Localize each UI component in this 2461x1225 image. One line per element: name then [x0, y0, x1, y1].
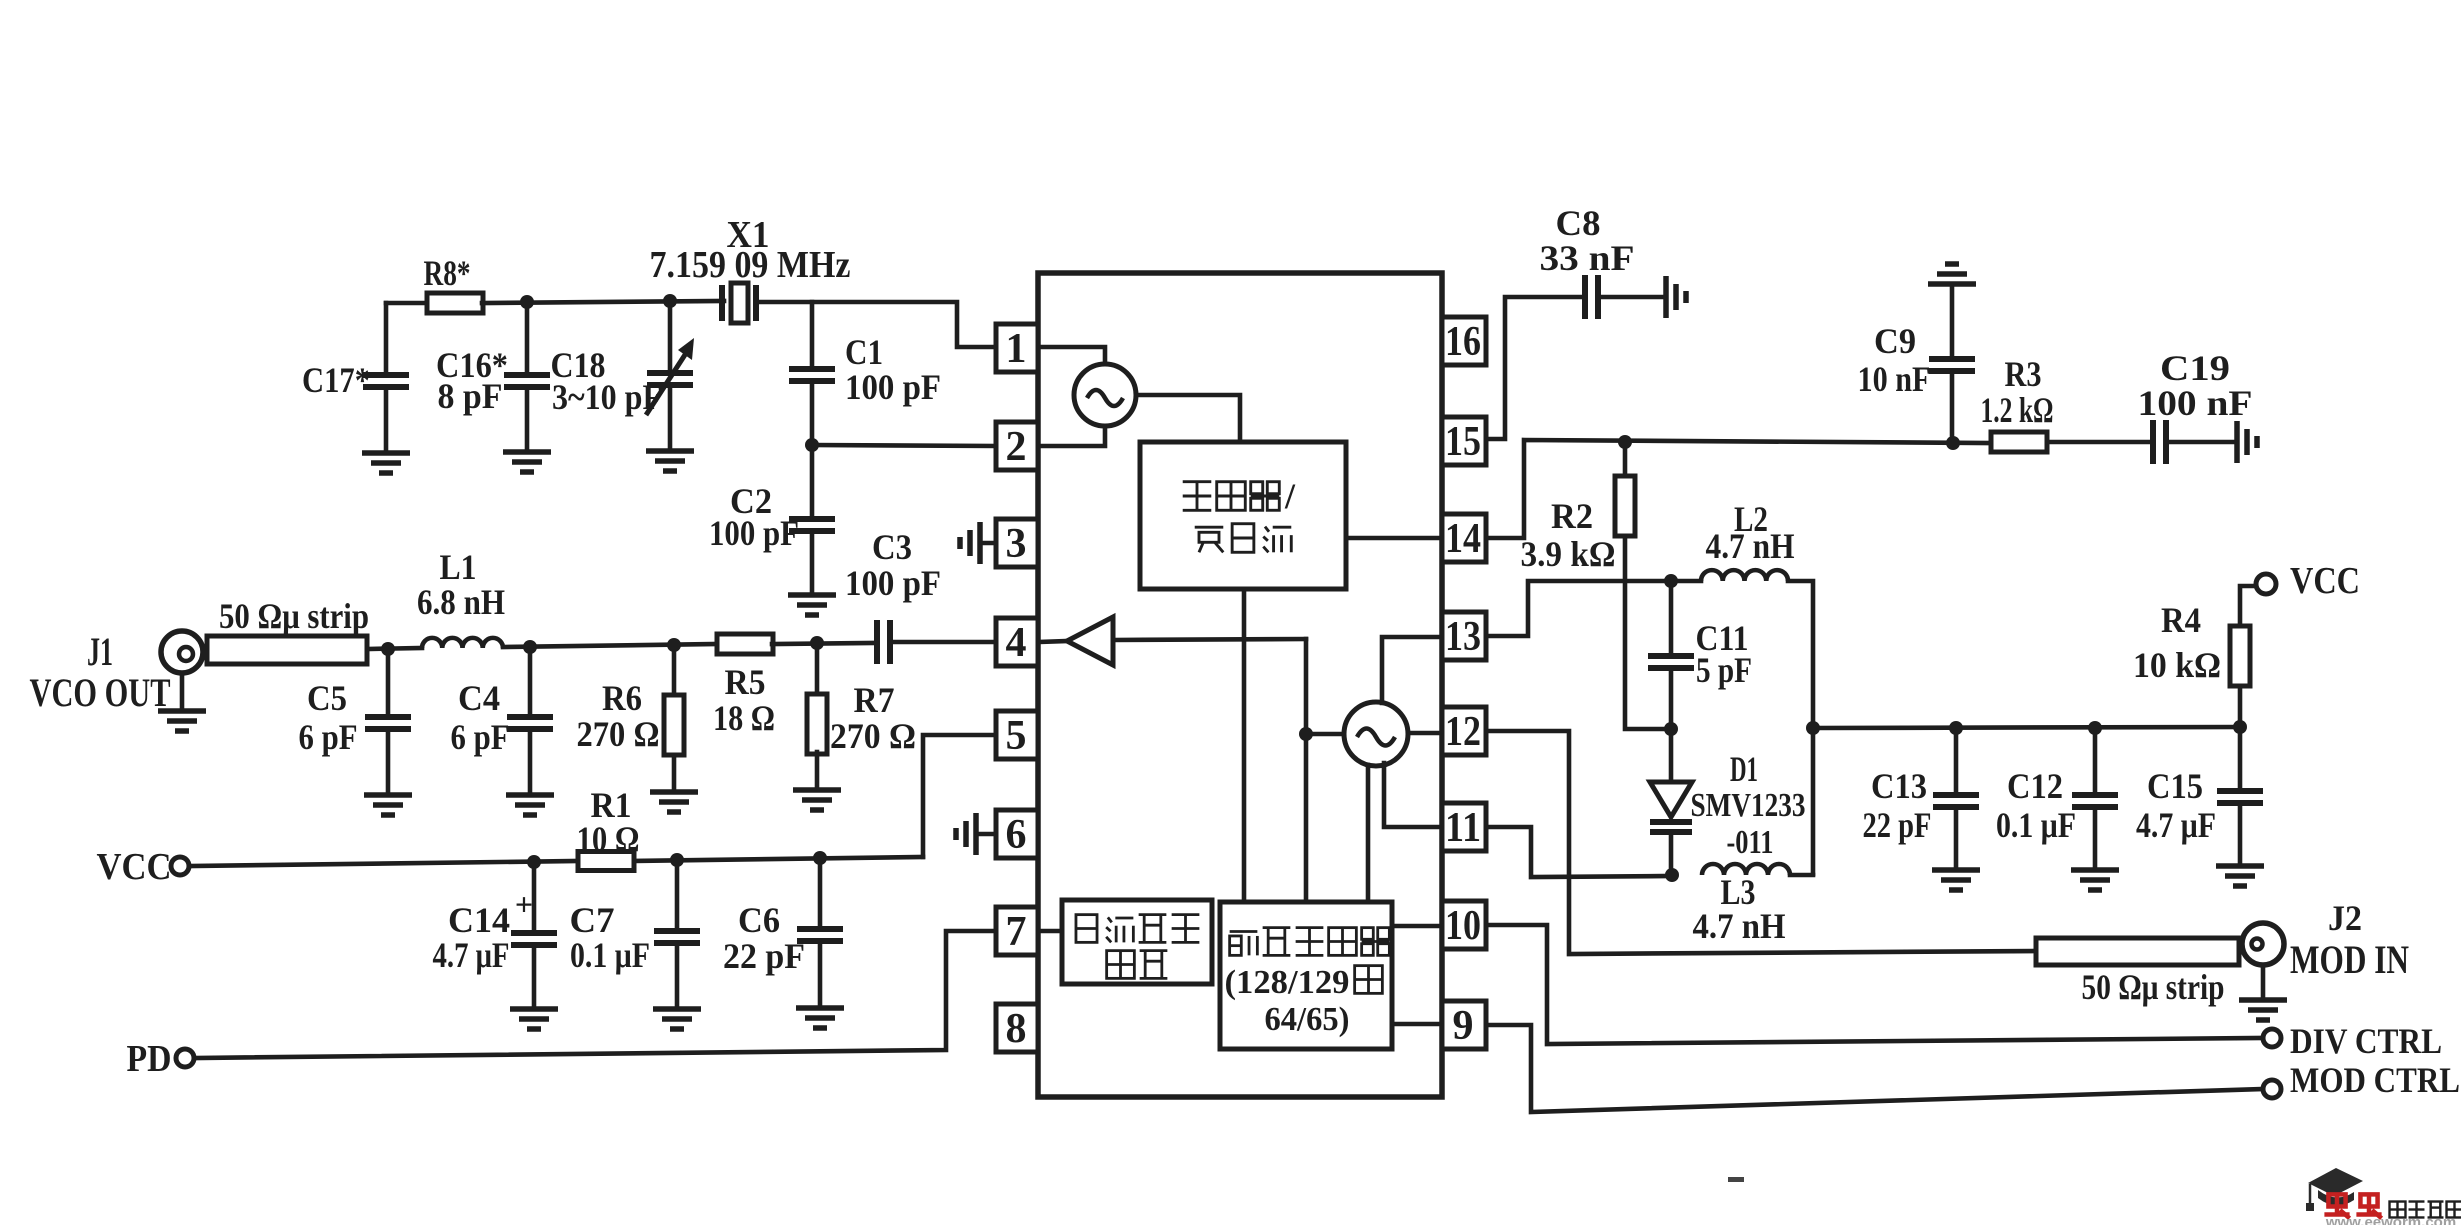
connector J1	[161, 631, 203, 673]
node C5	[381, 642, 395, 656]
watermark graduation cap logo	[2306, 1168, 2363, 1211]
capacitor C4	[528, 647, 533, 713]
ground C16	[503, 452, 551, 472]
ground C18	[646, 451, 694, 471]
pin 7	[996, 907, 1038, 955]
svg-text:13: 13	[1445, 614, 1481, 660]
wire to pin 5	[923, 735, 996, 857]
wire osc to phase detector	[1136, 395, 1240, 442]
svg-text:DIV CTRL: DIV CTRL	[2290, 1021, 2442, 1061]
wire pin 11 to tank bottom	[1486, 827, 1672, 877]
wire VCC rail right	[634, 857, 923, 861]
wire C3 to pin 4	[893, 640, 996, 645]
ground C4	[506, 795, 554, 815]
wire pin 13 to tank	[1486, 581, 1671, 636]
svg-text:D1: D1	[1730, 749, 1758, 789]
node R2 top	[1618, 435, 1632, 449]
svg-text:10 nF: 10 nF	[1858, 359, 1931, 399]
svg-text:C15: C15	[2147, 766, 2203, 806]
wire osc2 to prescaler	[1366, 765, 1371, 902]
inductor L3	[1702, 864, 1790, 875]
node C14	[527, 855, 541, 869]
microstrip 50ohm J2	[2036, 938, 2239, 965]
svg-text:4: 4	[1006, 620, 1027, 666]
resistor R2	[1623, 442, 1628, 474]
capacitor C3	[874, 620, 893, 664]
wire pin 13 to osc2 top	[1382, 637, 1442, 703]
svg-text:VCC: VCC	[97, 846, 172, 888]
ground C5	[364, 795, 412, 815]
ground C13	[1932, 870, 1980, 890]
ground R7	[793, 790, 841, 810]
svg-text:8: 8	[1006, 1006, 1027, 1052]
crystal X1	[731, 283, 748, 323]
svg-text:4.7 nH: 4.7 nH	[1693, 906, 1786, 946]
resistor R7	[815, 643, 820, 697]
wire PD to pin 7	[194, 931, 996, 1058]
capacitor C2	[810, 445, 815, 515]
svg-text:R2: R2	[1551, 496, 1593, 536]
block DC bias (直流偏置电路)	[1062, 900, 1212, 984]
pin 11	[1442, 803, 1486, 851]
svg-text:J2: J2	[2328, 898, 2362, 938]
ground C8	[1666, 276, 1686, 318]
ground C17	[362, 453, 410, 473]
node D1/L3/pin11	[1665, 868, 1679, 882]
svg-text:0.1 μF: 0.1 μF	[570, 935, 650, 975]
wire to L2	[1671, 579, 1701, 584]
svg-text:MOD CTRL: MOD CTRL	[2290, 1060, 2460, 1100]
svg-text:50 Ωμ strip: 50 Ωμ strip	[2082, 967, 2225, 1007]
wire pin 11 to osc2 bottom	[1384, 763, 1442, 827]
svg-text:18 Ω: 18 Ω	[713, 698, 775, 738]
node C6	[813, 851, 827, 865]
wire R5 to C3	[772, 643, 873, 644]
svg-text:9: 9	[1453, 1003, 1474, 1049]
capacitor C18 (variable)	[668, 301, 673, 369]
wire prescaler to pin 9	[1392, 1022, 1442, 1027]
svg-text:L1: L1	[440, 547, 477, 587]
wire block to pin 14	[1346, 536, 1442, 541]
pin 1	[996, 324, 1038, 372]
capacitor C1	[810, 302, 815, 365]
svg-text:10 Ω: 10 Ω	[577, 819, 640, 859]
capacitor C8	[1582, 275, 1601, 319]
terminal VCC right	[2256, 574, 2276, 594]
wire pin1 to osc	[1038, 347, 1105, 364]
svg-text:64/65): 64/65)	[1265, 1001, 1350, 1038]
svg-text:R7: R7	[854, 680, 895, 720]
svg-text:14: 14	[1445, 516, 1481, 562]
wire osc2 to pin 12	[1408, 731, 1442, 736]
wire VCC rail left	[189, 861, 578, 866]
resistor R3	[1991, 432, 2047, 452]
svg-text:6 pF: 6 pF	[299, 717, 358, 757]
capacitor C14 (polarized)	[532, 862, 537, 929]
svg-text:VCO OUT: VCO OUT	[30, 670, 171, 715]
text 前置分频器	[1230, 928, 1390, 956]
microstrip 50ohm J1	[207, 636, 367, 664]
terminal PD	[176, 1049, 194, 1067]
ground C12	[2071, 870, 2119, 890]
ground C7	[653, 1009, 701, 1029]
ground C9 (top)	[1928, 264, 1976, 284]
svg-text:4.7 μF: 4.7 μF	[433, 935, 510, 975]
capacitor C19 plates	[2150, 420, 2169, 464]
text 鉴相器/	[1183, 482, 1280, 511]
capacitor C11	[1669, 581, 1674, 652]
node C7	[670, 853, 684, 867]
node C9	[1946, 436, 1960, 450]
svg-text:VCC: VCC	[2290, 560, 2360, 602]
svg-text:C12: C12	[2007, 766, 2063, 806]
svg-text:100 pF: 100 pF	[845, 367, 941, 407]
svg-text:(128/129: (128/129	[1225, 964, 1350, 1001]
ground pin 3	[960, 522, 980, 564]
ground J2	[2239, 1000, 2287, 1020]
svg-text:SMV1233: SMV1233	[1691, 787, 1806, 824]
svg-text:6 pF: 6 pF	[451, 717, 510, 757]
ground J1	[158, 711, 206, 731]
watermark 电子下载站	[2390, 1202, 2461, 1218]
wire to pin 2	[812, 445, 996, 446]
wire X1 to pin 1	[756, 302, 996, 347]
wire amp to prescaler	[1304, 639, 1309, 902]
svg-text:10 kΩ: 10 kΩ	[2133, 645, 2221, 685]
wire pin 9 to MOD CTRL	[1486, 1025, 2263, 1112]
ground C14	[510, 1009, 558, 1029]
wire osc to pin2	[1038, 426, 1105, 446]
resistor R5	[717, 634, 773, 654]
svg-text:100 pF: 100 pF	[845, 563, 941, 603]
connector J2	[2242, 923, 2284, 965]
svg-text:22 pF: 22 pF	[723, 936, 805, 976]
node C4	[523, 640, 537, 654]
terminal DIV CTRL	[2263, 1029, 2281, 1047]
pin 9	[1442, 1001, 1486, 1049]
wire pin 12 to J2	[1486, 731, 2036, 954]
svg-text:J1: J1	[87, 629, 113, 674]
wire L3 right	[1790, 873, 1813, 878]
svg-text:7: 7	[1006, 909, 1027, 955]
ground C19	[2237, 421, 2257, 463]
svg-text:33 nF: 33 nF	[1540, 238, 1635, 278]
pin 3	[996, 519, 1038, 567]
ground C15	[2216, 866, 2264, 886]
node C16 junction	[520, 295, 534, 309]
ground pin 6	[956, 813, 976, 855]
pin 15	[1442, 417, 1486, 465]
capacitor C5	[386, 649, 391, 713]
svg-text:C17*: C17*	[302, 360, 370, 400]
svg-text:270 Ω: 270 Ω	[830, 716, 916, 756]
svg-text:16: 16	[1445, 319, 1481, 365]
svg-text:2: 2	[1006, 424, 1027, 470]
pin 4	[996, 618, 1038, 666]
wire varactor rail	[1813, 727, 2240, 728]
wire pin 14/15 rail to R3	[1486, 440, 1991, 538]
svg-text:3.9 kΩ: 3.9 kΩ	[1521, 534, 1616, 574]
svg-text:+: +	[515, 886, 533, 922]
svg-text:MOD IN: MOD IN	[2290, 937, 2409, 982]
svg-text:R3: R3	[2005, 354, 2042, 394]
wire amp output	[1113, 639, 1306, 640]
svg-text:10: 10	[1445, 903, 1481, 949]
svg-text:C9: C9	[1874, 321, 1916, 361]
node tank to rail	[1806, 721, 1820, 735]
svg-text:C1: C1	[845, 332, 883, 372]
svg-text:50 Ωμ strip: 50 Ωμ strip	[219, 596, 369, 636]
watermark 虫虫 (red)	[2324, 1193, 2349, 1218]
oscillator U1a (reference osc)	[1074, 364, 1136, 426]
svg-text:C7: C7	[570, 900, 615, 940]
svg-text:100 nF: 100 nF	[2138, 383, 2253, 423]
svg-text:6: 6	[1006, 812, 1027, 858]
wire J1 to strip	[203, 648, 207, 653]
capacitor C13	[1954, 728, 1959, 791]
text 直流偏置	[1076, 915, 1199, 943]
capacitor C15	[2238, 727, 2243, 787]
wire pin 10 to DIV CTRL	[1486, 925, 2263, 1044]
wire block to prescaler	[1242, 589, 1247, 902]
capacitor C7	[675, 860, 680, 927]
svg-text:4.7 nH: 4.7 nH	[1706, 526, 1795, 566]
pin 12	[1442, 707, 1486, 755]
svg-text:R4: R4	[2161, 600, 2201, 640]
ground C6	[796, 1008, 844, 1028]
wire R8 to X1	[482, 301, 724, 303]
pin 5	[996, 711, 1038, 759]
capacitor C19	[2047, 440, 2148, 445]
svg-text:15: 15	[1445, 419, 1481, 465]
svg-text:12: 12	[1445, 709, 1481, 755]
svg-text:6.8 nH: 6.8 nH	[417, 582, 505, 622]
svg-text:1: 1	[1006, 326, 1027, 372]
text 充电泵	[1195, 524, 1292, 553]
inductor L2	[1701, 570, 1788, 581]
svg-text:C8: C8	[1556, 203, 1601, 243]
svg-text:-011: -011	[1727, 824, 1774, 861]
svg-text:R5: R5	[725, 662, 766, 702]
svg-text:1.2 kΩ: 1.2 kΩ	[1981, 390, 2054, 430]
svg-text:R6: R6	[602, 678, 642, 718]
capacitor C6	[818, 858, 823, 925]
svg-text:C13: C13	[1871, 766, 1927, 806]
svg-text:11: 11	[1445, 805, 1481, 851]
svg-text:C14: C14	[448, 900, 510, 940]
node osc2 left	[1299, 727, 1313, 741]
svg-text:C19: C19	[2160, 348, 2230, 388]
stray mark	[1728, 1177, 1744, 1182]
varactor diode D1 SMV1233-011	[1669, 729, 1674, 781]
amplifier buffer at pin 4	[1038, 641, 1067, 642]
ground C2	[788, 595, 836, 615]
capacitor C16	[525, 302, 530, 371]
node C11/D1/R2	[1664, 722, 1678, 736]
resistor R8	[427, 293, 483, 313]
svg-text:5: 5	[1006, 713, 1027, 759]
svg-text:8 pF: 8 pF	[438, 376, 503, 416]
pin 16	[1442, 317, 1486, 365]
resistor R6	[672, 645, 677, 697]
terminal VCC left	[171, 857, 189, 875]
pin 6	[996, 810, 1038, 858]
capacitor C8 branch	[1486, 297, 1580, 439]
pin 13	[1442, 612, 1486, 660]
svg-text:3~10 pF: 3~10 pF	[552, 377, 662, 417]
svg-text:www.eeworm.com: www.eeworm.com	[2325, 1214, 2456, 1225]
wire L1 to R5	[503, 644, 718, 647]
capacitor C17	[384, 303, 389, 371]
svg-text:0.1 μF: 0.1 μF	[1996, 805, 2076, 845]
svg-text:7.159 09 MHz: 7.159 09 MHz	[650, 244, 851, 286]
pin 2	[996, 422, 1038, 470]
oscillator U1b (VCO)	[1344, 702, 1408, 766]
wire osc2 left stub	[1306, 732, 1344, 737]
block prescaler (前置分频器)	[1220, 902, 1392, 1049]
wire pin 7 to DC bias	[1038, 929, 1062, 934]
pin 8	[996, 1004, 1038, 1052]
wire pin 3 ground	[980, 541, 996, 546]
svg-text:3: 3	[1006, 521, 1027, 567]
terminal MOD CTRL	[2263, 1080, 2281, 1098]
node C12	[2088, 721, 2102, 735]
block phase-detector/charge-pump (鉴相器/充电泵)	[1140, 442, 1346, 589]
pin 10	[1442, 901, 1486, 949]
svg-text:4.7 μF: 4.7 μF	[2136, 805, 2216, 845]
node C13	[1949, 721, 1963, 735]
svg-text:C5: C5	[307, 678, 347, 718]
svg-text:100 pF: 100 pF	[709, 513, 799, 553]
node R7	[810, 636, 824, 650]
wire pin 6 ground	[976, 832, 996, 837]
capacitor C12	[2093, 728, 2098, 791]
inductor L1	[422, 638, 503, 648]
wire J2 ground	[2261, 965, 2266, 999]
wire strip to L1	[367, 648, 422, 649]
node L2/C11	[1664, 574, 1678, 588]
node C18 junction	[663, 294, 677, 308]
svg-text:C6: C6	[738, 900, 780, 940]
svg-text:22 pF: 22 pF	[1863, 805, 1932, 845]
text 电路	[1107, 951, 1168, 979]
svg-text:/: /	[1284, 476, 1296, 516]
wire R8 left	[386, 301, 428, 306]
wire prescaler to pin 10	[1392, 924, 1442, 929]
pin 14	[1442, 514, 1486, 562]
svg-text:5 pF: 5 pF	[1696, 650, 1752, 690]
IC U1 body	[1038, 273, 1442, 1097]
wire J1 ground	[180, 673, 185, 710]
svg-text:C3: C3	[872, 527, 912, 567]
svg-text:270 Ω: 270 Ω	[577, 714, 660, 754]
wire L2 right down	[1788, 581, 1813, 874]
svg-text:PD: PD	[127, 1038, 172, 1080]
svg-text:R8*: R8*	[424, 253, 471, 293]
resistor R1	[578, 852, 634, 871]
ground R6	[650, 792, 698, 812]
svg-text:C4: C4	[458, 678, 500, 718]
node C15/R4	[2233, 720, 2247, 734]
node R6	[667, 638, 681, 652]
resistor R4	[2238, 689, 2243, 727]
node C1/C2/pin2	[805, 438, 819, 452]
